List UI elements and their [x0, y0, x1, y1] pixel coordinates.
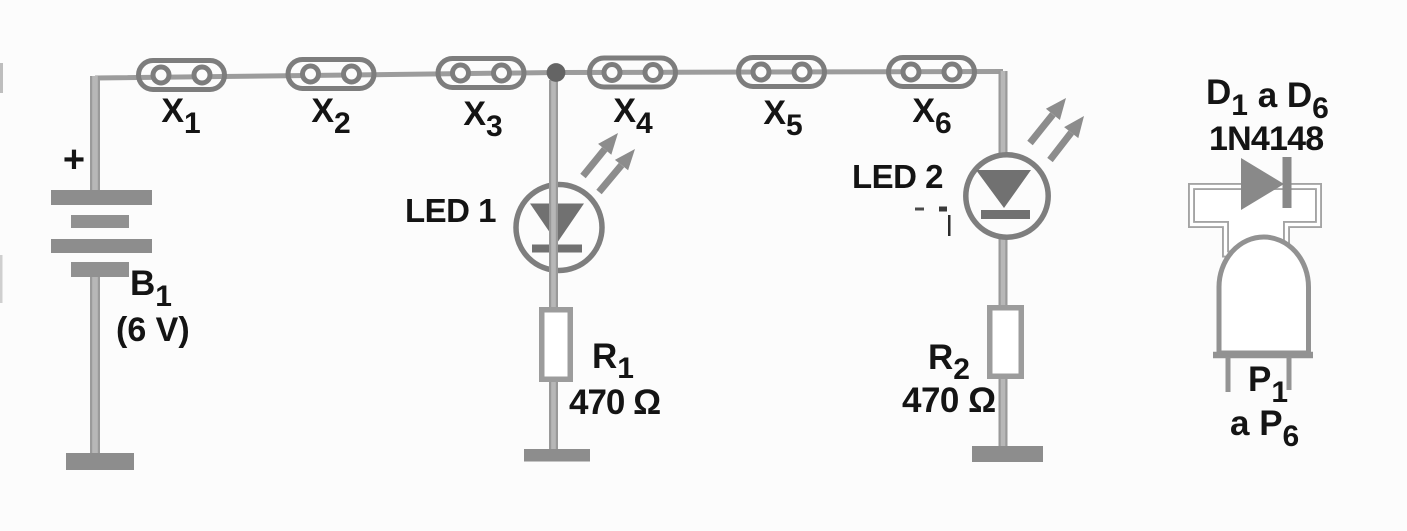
label X6 — [912, 92, 951, 140]
arrow LED1 light ray 1 — [583, 133, 618, 176]
lamp X4 — [590, 58, 676, 87]
node junction A — [547, 63, 566, 82]
legend lamp base outline P — [1192, 187, 1319, 255]
LED D LED1 — [516, 185, 602, 271]
label P1 — [1248, 360, 1288, 409]
label 1N4148 — [1209, 120, 1323, 158]
label R1 — [592, 337, 634, 385]
arrow LED2 light ray 2 — [1050, 116, 1084, 160]
artifact dash under LED 2 — [915, 207, 951, 237]
svg-text:+: + — [63, 139, 85, 181]
wire battery negative lead — [90, 277, 100, 455]
diode D1 legend symbol — [1241, 157, 1292, 210]
svg-text:(6 V): (6 V) — [116, 311, 190, 349]
legend lamp leg pin 1 — [1226, 357, 1231, 392]
svg-text:LED 1: LED 1 — [405, 192, 496, 229]
lamp X2 — [288, 60, 374, 89]
label X2 — [311, 92, 350, 140]
wire right branch to LED2 — [999, 71, 1008, 451]
legend lamp leg pin 2 — [1287, 357, 1292, 390]
label LED 2 — [852, 158, 943, 195]
ground R2 — [972, 446, 1043, 462]
lamp X5 — [739, 58, 825, 87]
resistor R1 — [542, 310, 571, 380]
label plus terminal — [63, 139, 85, 181]
ground R1 — [524, 449, 590, 462]
label R1 value 470 ohm — [569, 383, 660, 422]
label LED 1 — [405, 192, 496, 229]
battery B1 — [51, 190, 152, 277]
label X5 — [763, 94, 802, 142]
lamp X1 — [139, 61, 225, 90]
ground battery — [66, 453, 134, 470]
label D1 a D6 — [1206, 73, 1329, 125]
lamp X3 — [438, 59, 524, 88]
label X1 — [161, 92, 200, 140]
arrow LED1 light ray 2 — [599, 149, 635, 192]
svg-text:470 Ω: 470 Ω — [569, 383, 660, 422]
label R2 value 470 ohm — [902, 381, 996, 420]
label B1 — [130, 264, 172, 313]
arrow LED2 light ray 1 — [1030, 98, 1066, 143]
label (6 V) — [116, 311, 190, 349]
svg-text:1N4148: 1N4148 — [1209, 120, 1323, 158]
legend lamp bulb dome — [1213, 237, 1313, 355]
wire LED1 branch — [549, 80, 558, 455]
label R2 — [928, 338, 970, 386]
resistor R2 — [990, 308, 1022, 377]
svg-text:470 Ω: 470 Ω — [902, 381, 996, 420]
label a P6 — [1230, 404, 1299, 453]
svg-text:LED 2: LED 2 — [852, 158, 943, 195]
LED D LED2 — [966, 155, 1048, 237]
label X3 — [463, 95, 502, 143]
lamp X6 — [889, 58, 975, 87]
artifact scan mark left edge — [0, 63, 3, 303]
wire top horizontal bus — [95, 72, 1003, 79]
wire battery positive lead — [90, 76, 100, 192]
label X4 — [613, 92, 653, 140]
